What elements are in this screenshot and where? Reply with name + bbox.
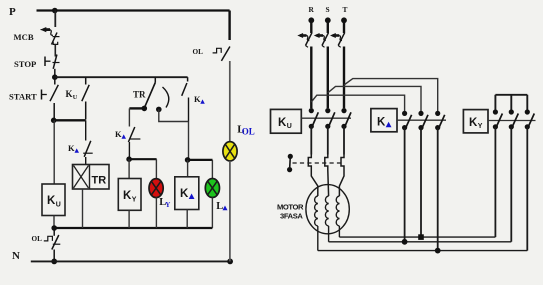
wire tap R to KD pole 1	[311, 95, 404, 111]
junction N right	[227, 259, 233, 265]
contact KD interlock for TR branch (NC)	[83, 120, 93, 164]
contact KY pole 2	[509, 109, 519, 129]
wire S down to KU pole	[327, 47, 329, 109]
linkage KU	[301, 117, 351, 119]
svg-text:Y: Y	[478, 123, 483, 130]
wire KD pole1 down	[404, 128, 406, 242]
wire KU pole 1 to OL	[310, 126, 312, 154]
overload heater pole 2	[325, 155, 328, 171]
overload heater pole 1	[308, 155, 311, 171]
wire KD coil top	[187, 160, 189, 177]
junction latch	[51, 118, 57, 124]
wire bus3 U2 to KY pole3	[318, 250, 528, 252]
svg-text:N: N	[12, 250, 20, 262]
svg-text:K: K	[278, 117, 287, 129]
wire motor V2 to bus2	[328, 226, 330, 242]
motor circle	[306, 185, 349, 234]
motor winding U	[315, 196, 318, 226]
svg-text:OL: OL	[193, 48, 204, 56]
wire KD pole3 down	[437, 128, 439, 251]
svg-text:R: R	[309, 5, 315, 14]
wire KY coil to bus	[128, 210, 130, 228]
wire from P rail down to MCB	[54, 11, 56, 28]
wire bridge to red lamp	[129, 158, 157, 160]
svg-text:TR: TR	[92, 175, 107, 187]
wire tap S to KD pole 2	[328, 86, 421, 111]
junction KD top	[185, 157, 191, 163]
lamp LOL (yellow)	[223, 142, 237, 161]
wire KY pole2 to bus2	[510, 127, 512, 242]
wire KY pole3 to bus3	[526, 127, 528, 251]
contact KD pole 2	[418, 111, 428, 130]
svg-text:Y: Y	[132, 197, 137, 204]
contact KU aux (NO, holding)	[82, 77, 89, 119]
junction KD pole1 bus2	[402, 239, 408, 245]
contact KU pole 3	[341, 108, 351, 129]
wire KU pole 3 to OL	[343, 126, 345, 154]
wire R to fuse	[310, 20, 312, 33]
node A junction	[52, 74, 58, 80]
wire STOP to node A	[54, 69, 56, 77]
breaker MCB	[40, 27, 59, 45]
overload contact OL (top)	[213, 47, 230, 61]
wire P rail	[37, 9, 230, 11]
junction KD pole2 bus1	[418, 234, 424, 240]
wire KY coil top	[128, 159, 130, 178]
wire T to fuse	[343, 20, 345, 33]
svg-text:K: K	[194, 94, 201, 104]
svg-text:K: K	[66, 89, 73, 99]
svg-text:T: T	[343, 5, 348, 14]
coil KU	[42, 184, 65, 216]
wire tap T to KD pole 3	[344, 79, 438, 112]
svg-text:L: L	[216, 201, 223, 212]
wire KU pole 2 to OL	[327, 126, 329, 154]
wire TR NC out to KY branch	[129, 107, 144, 109]
wire green lamp feed	[211, 160, 213, 179]
contactor KU box	[271, 109, 302, 133]
wire latch bar	[54, 119, 86, 121]
contact KD interlock for KY branch (NC)	[128, 127, 140, 159]
wire P rail corner down to OL top	[228, 11, 230, 41]
motor winding V	[325, 196, 328, 226]
svg-text:TR: TR	[133, 90, 146, 100]
wire yellow lamp to N	[229, 161, 231, 262]
svg-text:OL: OL	[32, 235, 43, 243]
contact KD pole 3	[435, 111, 445, 130]
svg-text:U: U	[73, 94, 78, 101]
linkage KD	[397, 119, 446, 121]
wire TR coil to bus	[82, 189, 84, 228]
junction KY top	[126, 156, 132, 162]
wire KU coil to bus	[53, 216, 55, 229]
svg-text:S: S	[326, 5, 330, 14]
svg-text:P: P	[9, 6, 16, 18]
fuse breaker S	[314, 33, 329, 48]
contact KU pole 2	[325, 108, 335, 129]
svg-text:U: U	[56, 202, 61, 209]
wire T down to KU pole	[343, 47, 345, 109]
terminal S	[325, 17, 331, 23]
wire MCB to STOP	[54, 45, 56, 57]
lamp LD (green)	[205, 179, 219, 198]
wire down to KD interlock 2	[128, 108, 130, 126]
junction TR NO out	[156, 107, 162, 113]
wire bottom bus	[54, 227, 212, 229]
svg-text:K: K	[469, 117, 478, 129]
terminal R	[308, 17, 314, 23]
wire S to fuse	[327, 20, 329, 33]
wire rail after STOP	[55, 76, 188, 78]
wire R down to KU pole	[310, 47, 312, 109]
linkage KY	[488, 120, 536, 122]
overload heater pole 3	[341, 155, 344, 171]
wire N rail	[31, 260, 231, 262]
wire motor W2 to bus1	[338, 226, 340, 237]
svg-text:K: K	[377, 116, 386, 128]
svg-text:U: U	[287, 123, 292, 130]
svg-text:STOP: STOP	[14, 59, 36, 69]
svg-text:START: START	[9, 91, 37, 101]
pushbutton STOP (NC)	[45, 55, 60, 69]
timer coil TR	[73, 165, 110, 190]
contact KY pole 1	[493, 109, 503, 129]
svg-text:3FASA: 3FASA	[280, 212, 303, 221]
wire KY star bridge	[495, 95, 527, 110]
svg-text:OL: OL	[242, 126, 255, 136]
svg-text:K: K	[115, 129, 122, 139]
fuse breaker R	[297, 33, 312, 48]
overload relay trip indicator	[287, 154, 293, 172]
contactor KD box	[371, 109, 397, 132]
wire KD pole2 down	[420, 128, 422, 238]
junction bus left	[51, 225, 57, 231]
wire bridge to green lamp	[188, 159, 213, 161]
svg-text:K: K	[123, 190, 132, 202]
coil KY	[118, 179, 141, 211]
contact KU pole 1	[309, 108, 319, 129]
svg-text:K: K	[47, 195, 56, 207]
wire OL to motor U1	[311, 171, 318, 197]
wire TR NO out to KD branch	[159, 109, 189, 121]
timed contact TR (changeover with delay arc)	[144, 77, 169, 108]
wire down to KD coil	[188, 122, 190, 160]
contact KD aux (NO, holding)	[182, 77, 189, 121]
coil KD	[175, 177, 199, 210]
junction on P rail	[52, 8, 58, 14]
junction KD pole3 bus3	[435, 248, 441, 254]
wire down to KU coil	[53, 120, 55, 184]
svg-text:K: K	[68, 143, 75, 153]
junction N	[51, 259, 57, 265]
overload relay dashed linkage	[293, 162, 345, 164]
contact KD pole 1	[402, 111, 412, 130]
wire red lamp to bus	[155, 197, 157, 228]
wire KY pole1 to bus1	[494, 127, 496, 237]
terminal T	[341, 17, 347, 23]
svg-text:MOTOR: MOTOR	[277, 203, 304, 212]
wire bus1 W2 to KY pole1	[339, 236, 495, 238]
wire motor U2 to bus3	[317, 226, 319, 251]
wire bus2 V2 to KY pole2	[329, 241, 512, 243]
junction TR NC out	[142, 106, 148, 112]
lamp LY (red)	[149, 179, 163, 198]
svg-text:Y: Y	[165, 201, 170, 209]
motor winding W	[336, 196, 339, 226]
wire KD coil to bus	[186, 210, 188, 229]
contactor KY box	[463, 110, 488, 133]
fuse breaker T	[330, 33, 345, 48]
wire red lamp feed	[155, 159, 157, 179]
pushbutton START (NO)	[42, 77, 59, 118]
wire OL to motor V1	[327, 171, 330, 197]
wire green lamp to bus	[211, 197, 213, 228]
svg-text:K: K	[180, 188, 189, 200]
wire OL to yellow lamp	[229, 61, 231, 142]
wire OL to motor W1	[339, 171, 344, 197]
contact KY pole 3	[525, 109, 535, 129]
svg-text:MCB: MCB	[14, 32, 34, 42]
overload contact OL (bottom)	[44, 228, 61, 261]
